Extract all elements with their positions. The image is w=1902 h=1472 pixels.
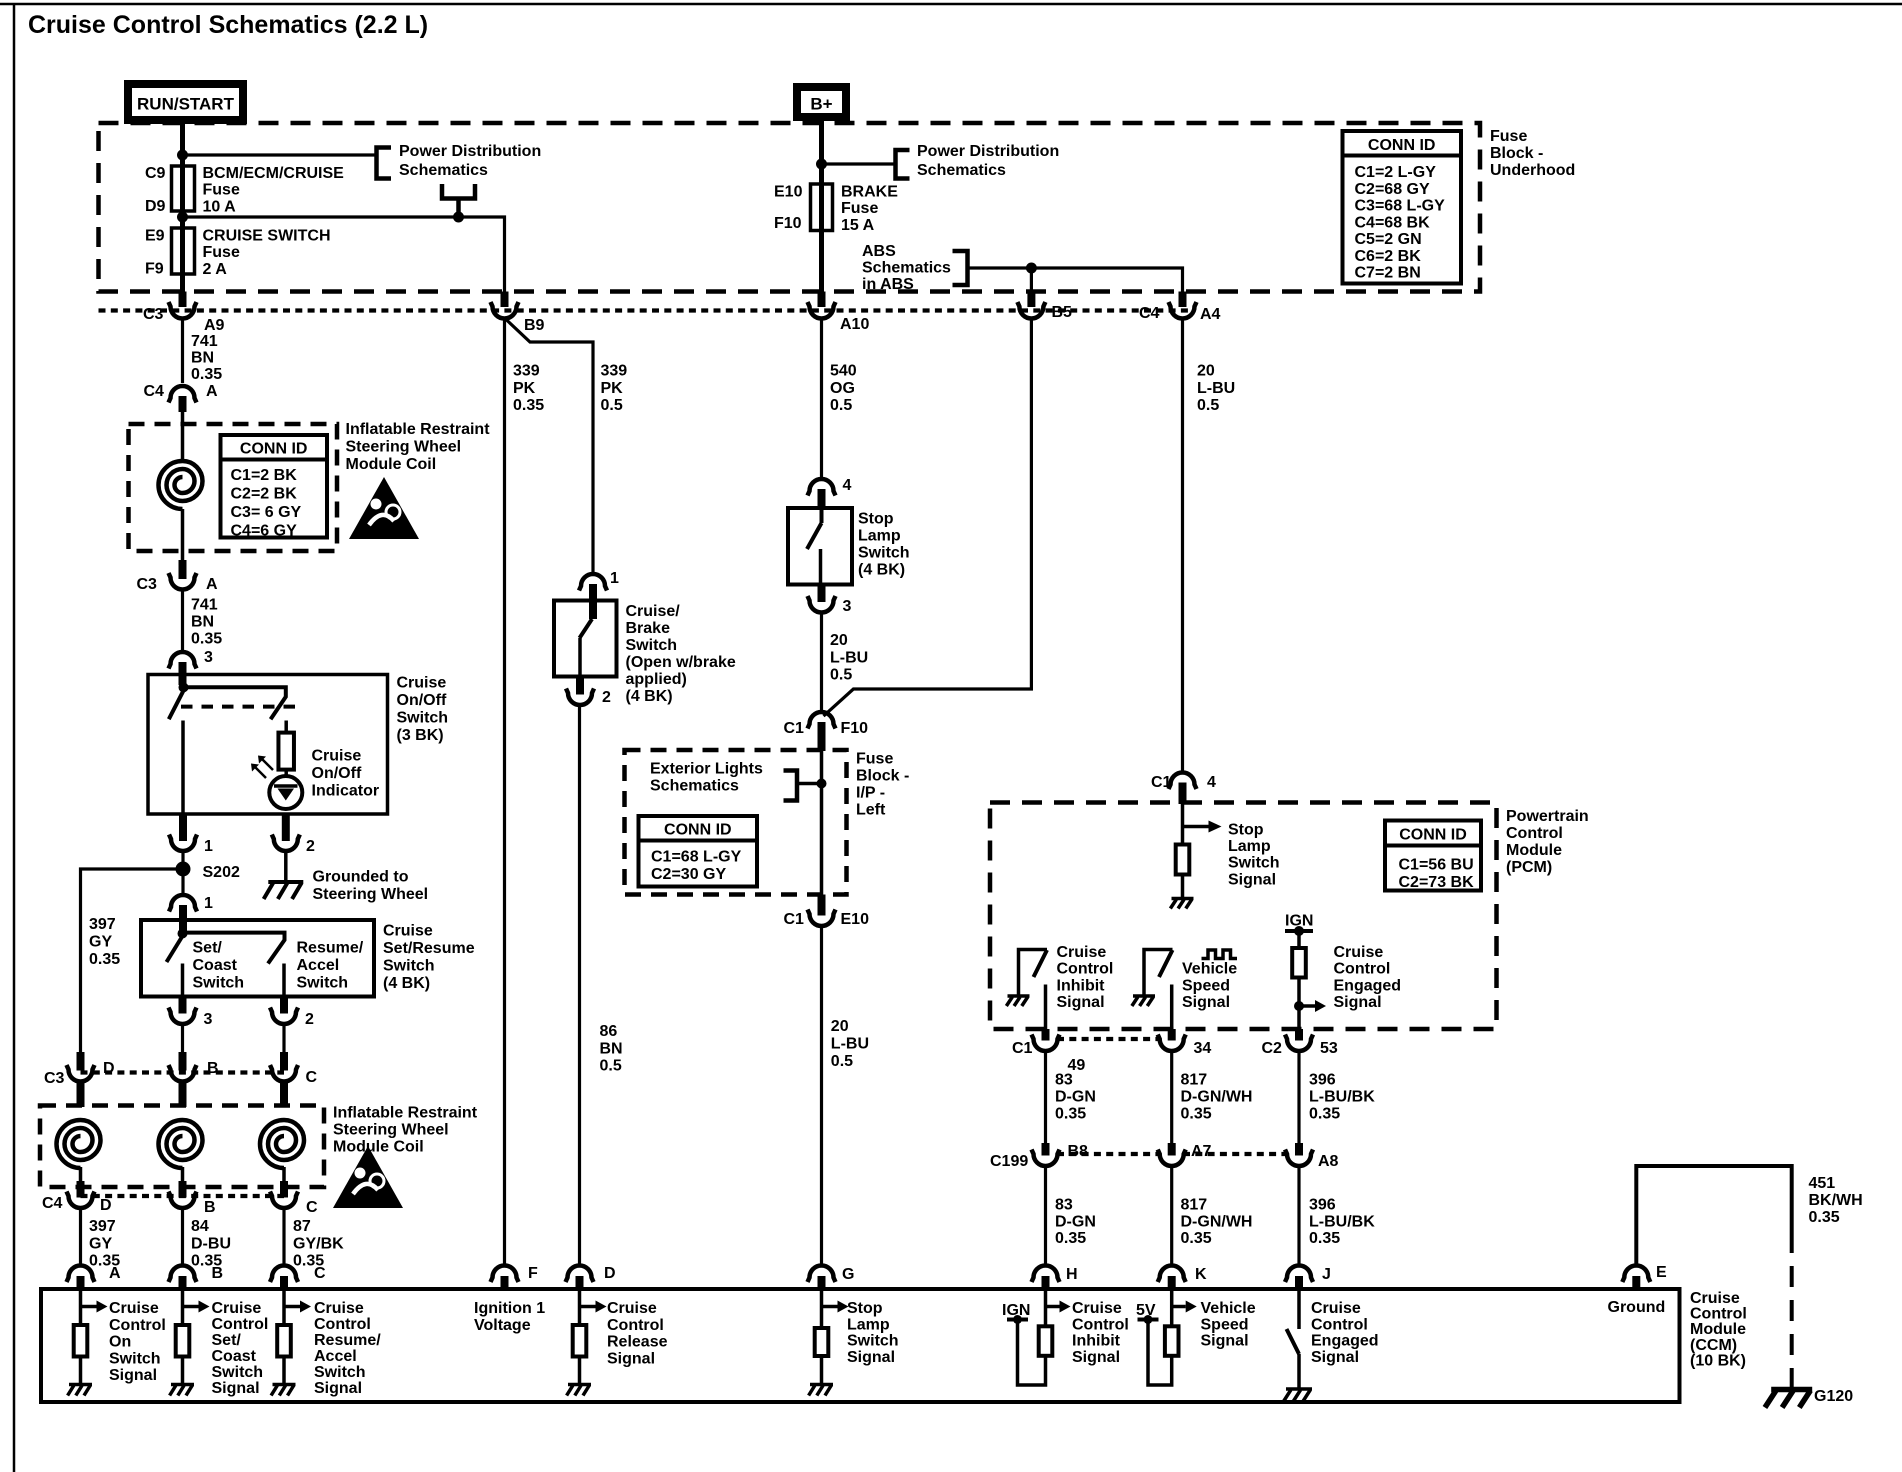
wire 396 L-BU/BK lower	[1297, 1166, 1300, 1265]
wire 741 BN C3 to C4	[181, 318, 184, 383]
svg-text:83D-GN0.35: 83D-GN0.35	[1055, 1072, 1096, 1123]
stop lamp switch contacts	[820, 508, 824, 523]
connector D CCM	[566, 1266, 594, 1283]
cruise set/resume switch box	[141, 920, 374, 997]
wire into coil	[181, 412, 185, 461]
connector C1 pin 4 PCM	[1169, 773, 1197, 790]
fuse E10/F10 BRAKE 15 A	[819, 184, 824, 292]
junction on ABS wire	[1026, 263, 1037, 274]
svg-text:20L-BU0.5: 20L-BU0.5	[1197, 363, 1235, 415]
conn id table steering wheel coil	[221, 435, 328, 538]
svg-text:A: A	[109, 1265, 121, 1282]
CCM cruise control on switch signal	[79, 1291, 83, 1325]
LED light rays	[254, 766, 266, 778]
splice S202	[181, 851, 184, 896]
wire ABS bracket to A4 column	[968, 268, 1183, 292]
junction below fuse D9	[177, 212, 188, 223]
connector pin 3 on/off switch	[169, 652, 197, 669]
svg-text:C3: C3	[137, 576, 158, 593]
svg-text:Ground: Ground	[1608, 1299, 1666, 1316]
PCM cruise engaged pull-up resistor	[1297, 931, 1301, 948]
svg-text:396L-BU/BK0.35: 396L-BU/BK0.35	[1309, 1072, 1375, 1123]
set/resume feed bar and resume contact	[183, 933, 285, 964]
svg-text:C: C	[306, 1069, 318, 1086]
svg-text:Power DistributionSchematics: Power DistributionSchematics	[917, 143, 1059, 179]
svg-text:A7: A7	[1191, 1143, 1212, 1160]
wire 87 GY/BK to CCM C	[282, 1208, 285, 1265]
PCM cruise control inhibit switch	[1019, 950, 1048, 997]
wire 20 L-BU E10 to CCM G	[820, 926, 823, 1265]
svg-text:741BN0.35: 741BN0.35	[191, 333, 222, 383]
connector B CCM	[169, 1266, 197, 1283]
connector B5	[1027, 292, 1035, 308]
wire 83 D-GN lower	[1044, 1166, 1047, 1265]
fuse block underhood dashed box	[99, 123, 1481, 292]
svg-text:F: F	[528, 1265, 538, 1282]
ground G120	[1765, 1390, 1812, 1408]
svg-text:C: C	[314, 1265, 326, 1282]
svg-text:B: B	[212, 1265, 224, 1282]
CCM cruise control release signal	[578, 1291, 582, 1325]
coil spiral D	[57, 1120, 101, 1168]
svg-text:C1=2 BKC2=2 BKC3= 6 GYC4=6 GY: C1=2 BKC2=2 BKC3= 6 GYC4=6 GY	[231, 467, 302, 540]
junction	[177, 150, 188, 161]
svg-text:C: C	[306, 1199, 318, 1216]
svg-text:CruiseControlEngagedSignal: CruiseControlEngagedSignal	[1311, 1300, 1379, 1366]
cruise on/off indicator resistor	[284, 721, 288, 733]
steering wheel coil dashed box upper	[129, 424, 338, 551]
svg-text:RUN/START: RUN/START	[137, 95, 235, 114]
wire resume out to C3 C	[282, 1024, 285, 1053]
connector plane dotted line	[99, 308, 1191, 312]
svg-text:Power DistributionSchematics: Power DistributionSchematics	[399, 143, 541, 179]
svg-text:Grounded toSteering Wheel: Grounded toSteering Wheel	[313, 869, 429, 904]
svg-text:F9: F9	[145, 261, 164, 278]
wire 817 D-GN/WH lower	[1170, 1166, 1173, 1265]
svg-text:817D-GN/WH0.35: 817D-GN/WH0.35	[1181, 1197, 1253, 1248]
wire pin2 to ground steering wheel	[284, 851, 288, 882]
svg-text:B9: B9	[524, 317, 545, 334]
connector row C3 D B C	[81, 1070, 285, 1074]
svg-text:CruiseControlSet/CoastSwitchSi: CruiseControlSet/CoastSwitchSignal	[212, 1300, 269, 1397]
svg-text:Inflatable RestraintSteering W: Inflatable RestraintSteering WheelModule…	[346, 421, 491, 473]
svg-text:339PK0.35: 339PK0.35	[513, 363, 544, 415]
svg-text:FuseBlock -I/P -Left: FuseBlock -I/P -Left	[856, 751, 909, 819]
wire RUN/START to fuse C9	[180, 120, 185, 166]
CCM cruise control resume/accel switch signal	[282, 1291, 286, 1325]
off-page bracket ABS	[953, 251, 968, 285]
svg-text:Exterior LightsSchematics: Exterior LightsSchematics	[650, 761, 763, 795]
svg-text:86BN0.5: 86BN0.5	[600, 1023, 623, 1075]
wire B5 down to brake circuit	[824, 318, 1032, 716]
connector J CCM	[1285, 1266, 1313, 1283]
svg-text:S202: S202	[203, 864, 240, 881]
svg-text:E9: E9	[145, 228, 165, 245]
svg-text:A10: A10	[840, 316, 869, 333]
PCM stop lamp switch signal input	[1181, 804, 1185, 845]
svg-text:CruiseControlOnSwitchSignal: CruiseControlOnSwitchSignal	[109, 1300, 166, 1384]
svg-text:1: 1	[204, 838, 213, 855]
fuse C9/D9 BCM/ECM/CRUISE 10 A	[180, 166, 185, 222]
set/coast lower contact	[181, 964, 185, 997]
CCM stop lamp switch signal	[820, 1291, 824, 1328]
wire E to G120 ground 451 BK/WH	[1636, 1166, 1791, 1266]
svg-text:C9: C9	[145, 165, 166, 182]
on/off switch mechanical link dashed	[181, 705, 295, 709]
svg-text:C3: C3	[143, 306, 164, 323]
svg-text:396L-BU/BK0.35: 396L-BU/BK0.35	[1309, 1197, 1375, 1248]
wire 84 D-BU to CCM B	[181, 1208, 184, 1265]
connector pin 3 stop lamp out	[818, 585, 826, 603]
connector G CCM	[808, 1266, 836, 1283]
conn id table PCM	[1385, 821, 1481, 891]
cruise on/off switch box	[148, 675, 388, 815]
ground grounded to steering wheel	[264, 882, 304, 899]
off-page bracket power distribution 2	[896, 150, 910, 179]
svg-text:83D-GN0.35: 83D-GN0.35	[1055, 1197, 1096, 1248]
svg-text:K: K	[1195, 1266, 1207, 1283]
wire set out to C3 B	[181, 1024, 184, 1053]
svg-text:StopLampSwitchSignal: StopLampSwitchSignal	[1228, 822, 1280, 889]
fuse block I/P left dashed box	[625, 750, 847, 895]
connector A10	[818, 292, 826, 308]
svg-text:PowertrainControlModule(PCM): PowertrainControlModule(PCM)	[1506, 808, 1589, 876]
svg-text:StopLampSwitch(4 BK): StopLampSwitch(4 BK)	[858, 511, 910, 579]
svg-text:J: J	[1322, 1266, 1331, 1283]
connector pin 2 cruise/brake out	[576, 677, 584, 695]
wire to power distribution bracket	[183, 153, 378, 156]
svg-text:Inflatable RestraintSteering W: Inflatable RestraintSteering WheelModule…	[333, 1105, 478, 1156]
connector C1 pin E10	[818, 895, 826, 916]
svg-text:817D-GN/WH0.35: 817D-GN/WH0.35	[1181, 1072, 1253, 1123]
PCM vehicle speed switch	[1144, 950, 1173, 997]
wire 339 PK 0.35 B9 to CCM F	[503, 318, 506, 1265]
svg-text:397GY0.35: 397GY0.35	[89, 1218, 120, 1270]
svg-text:D: D	[100, 1197, 112, 1214]
connector K CCM	[1158, 1266, 1186, 1283]
svg-text:A: A	[206, 576, 218, 593]
svg-text:4: 4	[843, 477, 852, 494]
svg-text:C1=2 L-GYC2=68 GYC3=68 L-GYC4=: C1=2 L-GYC2=68 GYC3=68 L-GYC4=68 BKC5=2 …	[1355, 164, 1446, 282]
connector pin 2 resume out	[280, 997, 288, 1014]
svg-text:339PK0.5: 339PK0.5	[601, 363, 628, 415]
steering wheel module coil spiral	[159, 461, 203, 509]
connector pin 4 stop lamp switch	[808, 479, 836, 496]
connector row C4 D B C	[81, 1194, 285, 1198]
wire through fuse block I/P	[820, 751, 824, 896]
wire to power distribution bracket 2	[822, 162, 897, 165]
cruise/brake switch contacts	[580, 619, 593, 638]
svg-text:3: 3	[204, 649, 213, 666]
svg-text:CruiseOn/OffSwitch(3 BK): CruiseOn/OffSwitch(3 BK)	[397, 675, 449, 745]
svg-text:451BK/WH0.35: 451BK/WH0.35	[1809, 1175, 1863, 1226]
svg-text:397GY0.35: 397GY0.35	[89, 916, 120, 968]
svg-text:C4: C4	[1139, 305, 1160, 322]
svg-text:CruiseSet/ResumeSwitch(4 BK): CruiseSet/ResumeSwitch(4 BK)	[383, 923, 475, 993]
svg-text:ABSSchematicsin ABS: ABSSchematicsin ABS	[862, 243, 951, 293]
cruise/brake switch box	[554, 601, 617, 677]
connector C3 pin A9	[179, 292, 187, 308]
svg-text:2: 2	[306, 838, 315, 855]
svg-text:CONN ID: CONN ID	[664, 822, 732, 839]
svg-text:VehicleSpeedSignal: VehicleSpeedSignal	[1201, 1300, 1256, 1350]
svg-text:3: 3	[843, 598, 852, 615]
svg-text:A8: A8	[1318, 1153, 1339, 1170]
svg-text:Ignition 1Voltage: Ignition 1Voltage	[474, 1300, 545, 1334]
svg-text:G: G	[842, 1266, 854, 1283]
svg-text:BCM/ECM/CRUISEFuse10 A: BCM/ECM/CRUISEFuse10 A	[203, 165, 345, 215]
airbag warning symbol	[349, 477, 419, 539]
wire 397 GY to CCM A	[79, 1208, 82, 1265]
connector C1 pin F10	[808, 712, 836, 729]
ground PCM inhibit	[1006, 996, 1029, 1006]
svg-text:53: 53	[1320, 1040, 1338, 1057]
svg-text:G120: G120	[1814, 1388, 1853, 1405]
svg-text:CONN ID: CONN ID	[1368, 137, 1436, 154]
fuse E9/F9 CRUISE SWITCH 2 A	[180, 222, 185, 292]
svg-text:VehicleSpeedSignal: VehicleSpeedSignal	[1182, 961, 1237, 1011]
svg-text:C4: C4	[144, 383, 165, 400]
resume/accel lower contact	[282, 964, 286, 997]
svg-text:Cruise/BrakeSwitch(Open w/brak: Cruise/BrakeSwitch(Open w/brakeapplied)(…	[626, 603, 736, 705]
wire 83 D-GN upper	[1044, 1051, 1047, 1143]
CCM vehicle speed signal	[1170, 1291, 1174, 1326]
svg-text:C1: C1	[1012, 1040, 1033, 1057]
svg-text:87GY/BK0.35: 87GY/BK0.35	[293, 1218, 344, 1270]
ground PCM speed	[1132, 996, 1155, 1006]
svg-text:C3: C3	[44, 1070, 65, 1087]
wire 20 L-BU stop lamp to F10	[820, 613, 823, 713]
CCM cruise control inhibit signal	[1044, 1291, 1048, 1326]
connector F CCM	[491, 1266, 519, 1283]
wire 20 L-BU A4 to PCM	[1181, 318, 1184, 773]
wire 396 L-BU/BK upper	[1297, 1051, 1300, 1143]
wire 86 BN to CCM D	[578, 705, 581, 1265]
connector pin 1 on/off switch out	[179, 814, 187, 841]
steering wheel coil dashed box lower	[40, 1106, 324, 1188]
connector pin 2 indicator out	[282, 814, 290, 841]
svg-text:C1: C1	[1151, 774, 1172, 791]
svg-text:B+: B+	[810, 95, 832, 114]
connector E CCM	[1622, 1266, 1650, 1283]
wire junction to B5	[1030, 268, 1033, 292]
svg-text:CruiseControlModule(CCM)(10 BK: CruiseControlModule(CCM)(10 BK)	[1690, 1290, 1747, 1369]
svg-text:Resume/AccelSwitch: Resume/AccelSwitch	[297, 940, 364, 992]
battery feed B+	[797, 87, 846, 117]
svg-text:540OG0.5: 540OG0.5	[830, 363, 857, 415]
svg-text:F10: F10	[774, 215, 802, 232]
on/off switch lower contact to pin 1	[181, 721, 185, 815]
set/coast switch blade	[167, 936, 183, 962]
connector C4 pin A	[169, 386, 197, 403]
connector A CCM	[67, 1266, 95, 1283]
on/off switch blade	[169, 691, 184, 720]
svg-text:CruiseControlEngagedSignal: CruiseControlEngagedSignal	[1334, 944, 1402, 1011]
on/off switch fixed contact	[184, 687, 286, 719]
svg-text:BRAKEFuse15 A: BRAKEFuse15 A	[841, 184, 898, 234]
svg-text:FuseBlock -Underhood: FuseBlock -Underhood	[1490, 128, 1575, 179]
junction cruise engaged	[1294, 1001, 1304, 1011]
svg-text:H: H	[1066, 1266, 1078, 1283]
cruise control module CCM box	[41, 1289, 1680, 1402]
connector pin 1 set/coast switch	[169, 895, 197, 912]
wire S202 branch to C3 D	[81, 869, 184, 1052]
svg-text:Set/CoastSwitch: Set/CoastSwitch	[193, 940, 245, 992]
svg-text:CONN ID: CONN ID	[1399, 827, 1467, 844]
svg-text:B8: B8	[1068, 1143, 1089, 1160]
svg-text:20L-BU0.5: 20L-BU0.5	[830, 632, 868, 684]
svg-text:1: 1	[204, 895, 213, 912]
pins into coil box	[77, 1080, 85, 1107]
wire 817 D-GN/WH upper	[1170, 1051, 1173, 1143]
wire 741 BN to on/off switch	[181, 589, 184, 653]
svg-text:D: D	[103, 1060, 115, 1077]
conn id table fuse block I/P	[639, 816, 758, 887]
svg-text:C2: C2	[1262, 1040, 1283, 1057]
stop lamp switch box	[788, 508, 852, 585]
conn id table fuse block underhood	[1343, 131, 1462, 284]
connector pin 3 set/coast out	[179, 997, 187, 1014]
svg-text:2: 2	[305, 1011, 314, 1028]
CCM cruise control engaged switch	[1297, 1291, 1301, 1329]
airbag warning symbol 2	[333, 1146, 403, 1208]
svg-text:2: 2	[602, 689, 611, 706]
connector pin 1 cruise/brake switch	[579, 574, 607, 591]
wire coil to C3 A	[181, 509, 185, 562]
svg-text:3: 3	[204, 1011, 213, 1028]
set/coast switch junction	[178, 929, 188, 939]
ground PCM stop lamp	[1170, 899, 1193, 909]
junction	[453, 212, 464, 223]
svg-text:1: 1	[610, 570, 619, 587]
coil spiral B	[159, 1120, 203, 1168]
svg-text:C1: C1	[784, 720, 805, 737]
connector H CCM	[1032, 1266, 1060, 1283]
wire branch B9 to cruise/brake switch	[505, 318, 594, 574]
wire inhibit to C1 49	[1044, 985, 1048, 1030]
svg-text:E: E	[1656, 1264, 1667, 1281]
connector C3 pin A lower	[179, 560, 187, 579]
svg-text:84D-BU0.35: 84D-BU0.35	[191, 1218, 231, 1270]
svg-text:C1=56 BUC2=73 BK: C1=56 BUC2=73 BK	[1399, 857, 1475, 892]
square wave symbol	[1202, 950, 1238, 959]
svg-text:C4: C4	[42, 1195, 63, 1212]
svg-text:34: 34	[1194, 1040, 1212, 1057]
svg-text:CruiseControlReleaseSignal: CruiseControlReleaseSignal	[607, 1300, 668, 1367]
svg-text:A4: A4	[1200, 306, 1221, 323]
wire B+ down	[819, 117, 824, 184]
CCM cruise control set/coast switch signal	[181, 1291, 185, 1325]
svg-text:CONN ID: CONN ID	[240, 441, 308, 458]
svg-text:20L-BU0.5: 20L-BU0.5	[831, 1018, 869, 1070]
svg-text:D: D	[604, 1265, 616, 1282]
svg-text:E10: E10	[774, 184, 803, 201]
svg-text:F10: F10	[841, 720, 869, 737]
off-page bracket power distribution	[377, 148, 392, 179]
svg-text:741BN0.35: 741BN0.35	[191, 597, 222, 648]
wire D9 to B9 column	[183, 217, 505, 292]
svg-text:CruiseControlInhibitSignal: CruiseControlInhibitSignal	[1057, 944, 1114, 1011]
connector C CCM	[270, 1266, 298, 1283]
svg-text:CruiseControlResume/AccelSwitc: CruiseControlResume/AccelSwitchSignal	[314, 1300, 381, 1397]
cruise on/off indicator LED	[269, 776, 302, 809]
connector B9	[501, 292, 509, 308]
connector row C199 B8 A7 A8	[1057, 1152, 1160, 1156]
connector C4 pin A4	[1179, 292, 1187, 308]
svg-text:C1: C1	[784, 911, 805, 928]
off-page connection symbol	[442, 184, 475, 199]
wire speed to 34	[1170, 985, 1174, 1030]
ignition feed RUN/START	[128, 84, 243, 120]
svg-text:A9: A9	[204, 317, 225, 334]
svg-text:B: B	[207, 1060, 219, 1077]
wire 540 OG A10 to stop lamp switch	[820, 318, 823, 479]
on/off switch junction	[179, 682, 189, 692]
junction	[816, 159, 827, 170]
svg-text:B: B	[204, 1199, 216, 1216]
PCM dashed box	[990, 803, 1497, 1030]
connector row C1 49 34 C2 53	[1057, 1037, 1160, 1041]
svg-text:C199: C199	[990, 1153, 1028, 1170]
svg-text:C1=68 L-GYC2=30 GY: C1=68 L-GYC2=30 GY	[651, 849, 742, 884]
svg-text:Cruise Control Schematics (2.2: Cruise Control Schematics (2.2 L)	[28, 11, 428, 39]
svg-text:CruiseOn/OffIndicator: CruiseOn/OffIndicator	[312, 748, 380, 800]
svg-text:D9: D9	[145, 198, 166, 215]
svg-text:StopLampSwitchSignal: StopLampSwitchSignal	[847, 1300, 899, 1366]
svg-text:A: A	[206, 383, 218, 400]
junction exterior lights tap	[817, 779, 827, 789]
svg-text:CruiseControlInhibitSignal: CruiseControlInhibitSignal	[1072, 1300, 1129, 1366]
svg-text:E10: E10	[841, 911, 870, 928]
svg-text:CRUISE SWITCHFuse2 A: CRUISE SWITCHFuse2 A	[203, 228, 331, 278]
off-page bracket exterior lights	[784, 771, 798, 801]
svg-text:B5: B5	[1052, 304, 1073, 321]
svg-text:4: 4	[1207, 774, 1216, 791]
coil spiral C	[260, 1120, 304, 1168]
